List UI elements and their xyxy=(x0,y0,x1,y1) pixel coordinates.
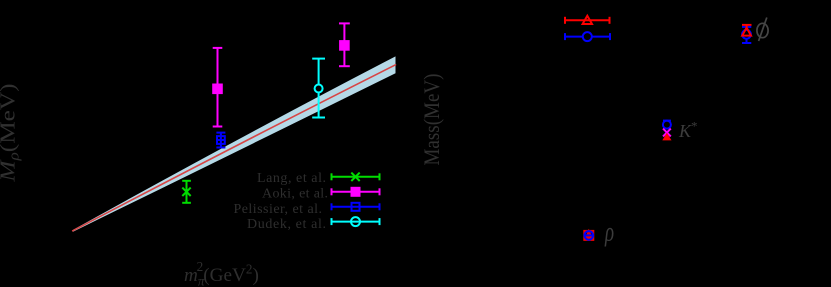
rho label xyxy=(604,218,614,248)
right: red key point (open triangle, horizontal bar) xyxy=(565,16,610,24)
left y-axis label M_rho(MeV) xyxy=(0,83,22,182)
left panel: confidence band xyxy=(73,56,396,231)
legend sample: cyan open circle xyxy=(332,217,380,226)
data point: Lang (green X with error bar) xyxy=(182,181,191,203)
phi point: red open triangle with caps xyxy=(742,25,752,36)
svg-text:ρ: ρ xyxy=(604,218,614,248)
left x-axis label m_pi^2(GeV^2) xyxy=(184,259,259,287)
K* point: magenta X xyxy=(663,129,671,137)
legend sample: blue open square xyxy=(332,203,380,211)
K* point: red filled triangle xyxy=(662,133,671,141)
legend sample: green X xyxy=(332,173,380,181)
rho point: red open square + blue circle + red triangle xyxy=(584,229,593,240)
data point: Aoki 2 (magenta filled square, upper right) xyxy=(339,23,350,66)
data point: Pelissier (blue open square, small error bar) xyxy=(216,133,225,148)
svg-text:Aoki, et al.: Aoki, et al. xyxy=(262,187,328,202)
svg-text:Mass(MeV): Mass(MeV) xyxy=(421,73,444,165)
right: blue key point (open circle, horizontal bar) xyxy=(565,32,610,41)
right y-axis label Mass(MeV) xyxy=(421,73,444,165)
svg-text:Lang, et al.: Lang, et al. xyxy=(257,171,326,186)
svg-text:Mρ(MeV): Mρ(MeV) xyxy=(0,83,22,182)
svg-text:Pelissier, et al.: Pelissier, et al. xyxy=(234,202,323,217)
legend sample: magenta square xyxy=(332,188,380,195)
K* point: blue open circle with cap xyxy=(663,121,671,130)
svg-text:Dudek, et al.: Dudek, et al. xyxy=(247,217,326,232)
data point: Aoki 1 (magenta filled square, tall error bar) xyxy=(213,48,223,127)
phi label (drawn glyph) xyxy=(757,18,768,42)
phi point: blue open circle with error bar xyxy=(742,27,751,43)
left panel: red fit line xyxy=(73,65,396,231)
data point: Dudek (cyan open circle with error bar) xyxy=(312,59,325,118)
